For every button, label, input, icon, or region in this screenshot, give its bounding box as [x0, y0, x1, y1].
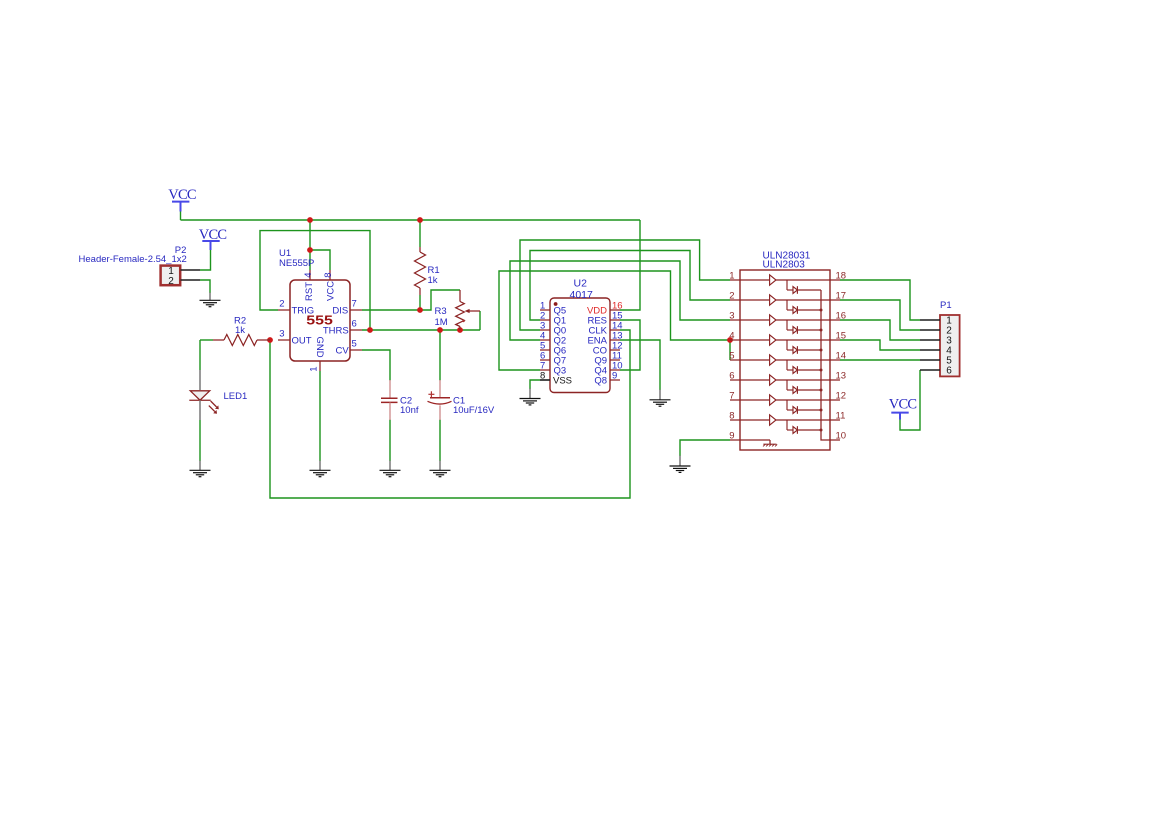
wire LED bottom to ground: [199, 420, 201, 461]
wire C1 top: [439, 330, 441, 381]
junction dot bus ch2: [820, 309, 823, 312]
svg-text:6: 6: [946, 366, 952, 377]
junction dot bus ch7: [820, 409, 823, 412]
pin stub U2.7: [540, 369, 550, 371]
svg-text:10nf: 10nf: [400, 405, 419, 416]
junction dot node THRS/R3: [457, 327, 463, 333]
svg-text:RST: RST: [304, 282, 315, 301]
wire ULN pin 9 to ground: [680, 440, 730, 456]
junction dot bus ch8: [820, 429, 823, 432]
pin stub ULN.15: [830, 339, 840, 341]
LED LED1: [189, 370, 219, 420]
gray lead C1 ground: [439, 461, 441, 471]
junction dot node VCC-rail/R1: [417, 217, 423, 223]
pin stub U1.1: [319, 361, 321, 371]
wire RST feed x=310 from rail to U1 pin 4: [309, 220, 311, 270]
wire LED top: [199, 340, 201, 370]
pin lead P1.2: [920, 329, 940, 331]
pin 1 indicator dot U2: [554, 302, 558, 306]
junction dot node THRS/TRIG-link: [367, 327, 373, 333]
wire R3 wiper return: [479, 311, 481, 330]
pin stub ULN.13: [830, 379, 840, 381]
pin stub ULN.16: [830, 319, 840, 321]
pin lead P1.5: [920, 359, 940, 361]
junction dot node VCC-rail/RST: [307, 217, 313, 223]
svg-text:1k: 1k: [235, 325, 245, 336]
ground (below C2): [380, 470, 401, 476]
ground (ULN pin 9): [670, 466, 691, 472]
wire CV to C2: [362, 350, 390, 381]
wire Q2 hook (U2.4 to ULN.3): [510, 261, 730, 340]
pin stub ULN.14: [830, 359, 840, 361]
svg-text:ULN2803: ULN2803: [763, 260, 806, 271]
wire C1 bottom to ground: [439, 420, 441, 462]
pin lead P2.2: [181, 279, 201, 281]
pin stub U2.9: [610, 379, 620, 381]
svg-text:1: 1: [309, 367, 320, 372]
IC U3 ULN2803 body: [740, 270, 830, 450]
pin stub U2.5: [540, 349, 550, 351]
svg-text:3: 3: [729, 311, 734, 322]
wire U1 GND pin to ground: [319, 371, 321, 461]
pin stub U2.15: [610, 319, 620, 321]
svg-text:7: 7: [729, 391, 734, 402]
pin lead P1.4: [920, 349, 940, 351]
buffer channel 8: [740, 415, 830, 434]
wire TRIG-THRS link: [260, 231, 370, 330]
wire R1 top feed: [419, 220, 421, 247]
wire VDD drop x=640 to U2 pin 16: [620, 220, 640, 310]
buffer channel 2: [740, 295, 830, 314]
wire Q0 hook (U2.3 to ULN.1): [520, 240, 730, 330]
gray lead ULN9 ground: [679, 456, 681, 467]
svg-text:U2: U2: [574, 278, 588, 290]
pin stub U1.3: [278, 339, 290, 341]
wire R1 bottom: [419, 295, 421, 310]
junction dot bus ch6: [820, 389, 823, 392]
wire ULN.17 to P1.2: [840, 300, 920, 330]
pin lead P2.1: [181, 269, 201, 271]
junction dot node OUT: [267, 337, 273, 343]
wire ULN.4 to ULN.5: [729, 340, 731, 360]
svg-text:8: 8: [323, 273, 334, 278]
svg-text:NE555P: NE555P: [279, 258, 314, 269]
svg-text:R3: R3: [435, 306, 447, 317]
svg-text:12: 12: [836, 391, 847, 402]
junction dot node DIS/R1: [417, 307, 423, 313]
pin stub U1.4: [309, 270, 311, 280]
pin stub U2.3: [540, 329, 550, 331]
wire C2 bottom to ground: [389, 420, 391, 462]
internal common lead pin 9: [740, 440, 777, 446]
pin stub U1.7: [350, 309, 362, 311]
pin stub ULN.2: [730, 299, 740, 301]
svg-text:4: 4: [303, 273, 314, 278]
svg-text:VCC: VCC: [326, 281, 337, 301]
pin stub U1.6: [350, 329, 362, 331]
ground (U2 VSS): [520, 399, 541, 405]
pin stub U2.1: [540, 309, 550, 311]
svg-text:TRIG: TRIG: [292, 305, 315, 316]
gray lead ENA ground: [659, 390, 661, 400]
svg-text:P1: P1: [940, 300, 952, 311]
svg-text:9: 9: [612, 370, 617, 381]
svg-text:6: 6: [729, 371, 734, 382]
power flag VCC (at P1): [889, 397, 917, 420]
wire VCC to P1.6: [900, 370, 920, 430]
pin stub ULN.5: [730, 359, 740, 361]
wire VCC to P2 pin 1: [200, 250, 211, 270]
pin stub ULN.6: [730, 379, 740, 381]
pin stub U2.4: [540, 339, 550, 341]
buffer channel 3: [740, 315, 830, 334]
pin stub U2.14: [610, 329, 620, 331]
pin stub U2.11: [610, 359, 620, 361]
junction dot bus ch5: [820, 369, 823, 372]
ground (below C1): [430, 470, 451, 476]
svg-text:4017: 4017: [570, 289, 594, 301]
junction dot node ULN pin4: [727, 337, 733, 343]
svg-text:8: 8: [540, 370, 545, 381]
svg-text:1k: 1k: [428, 275, 438, 286]
pin stub ULN.12: [830, 399, 840, 401]
svg-text:5: 5: [352, 339, 357, 350]
pin stub ULN.18: [830, 279, 840, 281]
resistor R2: [213, 335, 270, 346]
pin stub U1.2: [278, 309, 290, 311]
svg-text:13: 13: [836, 371, 847, 382]
pin stub ULN.9: [730, 439, 740, 441]
svg-text:9: 9: [729, 431, 734, 442]
buffer channel 1: [740, 275, 830, 294]
wire ULN.15 to P1.4: [840, 340, 920, 350]
wire branch to U1 pin 8: [310, 250, 330, 270]
connector P1 body: [940, 315, 960, 376]
svg-text:VSS: VSS: [553, 375, 572, 386]
pin stub U2.12: [610, 349, 620, 351]
pin stub ULN.17: [830, 299, 840, 301]
svg-text:VCC: VCC: [889, 397, 917, 413]
junction dot bus ch4: [820, 349, 823, 352]
svg-text:5: 5: [729, 351, 734, 362]
pin stub U2.10: [610, 369, 620, 371]
svg-text:1: 1: [729, 271, 734, 282]
gray lead U1 ground: [319, 461, 321, 471]
pin stub ULN.3: [730, 319, 740, 321]
wire P2 pin 2 to ground: [200, 280, 210, 293]
svg-text:10uF/16V: 10uF/16V: [453, 405, 495, 416]
buffer channel 5: [740, 355, 830, 374]
pin stub U1.8: [329, 270, 331, 280]
svg-text:CV: CV: [335, 345, 349, 356]
power flag VCC (top-left): [168, 187, 196, 212]
svg-text:Q8: Q8: [594, 375, 607, 386]
ground (ENA): [650, 400, 671, 406]
wire ENA to ground: [620, 340, 660, 390]
svg-text:OUT: OUT: [292, 335, 312, 346]
pin lead P1.3: [920, 339, 940, 341]
op-amp-timer U1 NE555P body: [290, 280, 350, 361]
svg-text:DIS: DIS: [332, 305, 348, 316]
pin stub U2.13: [610, 339, 620, 341]
svg-text:8: 8: [729, 411, 734, 422]
ground (below U1): [310, 470, 331, 476]
pin stub ULN.11: [830, 419, 840, 421]
wire THRS node y=330: [362, 329, 480, 331]
wire RES to Q4 (U2.15 to U2.10): [620, 320, 640, 370]
wire ULN.14 to P1.5: [840, 359, 920, 361]
buffer channel 4: [740, 335, 830, 354]
svg-text:GND: GND: [314, 337, 325, 358]
wire VCC rail horizontal y=220: [181, 219, 641, 221]
wire VCC flag to rail: [180, 212, 182, 221]
capacitor C2: [381, 380, 398, 420]
gray lead P2 ground: [209, 293, 211, 301]
svg-text:2: 2: [279, 299, 284, 310]
gray lead LED ground: [199, 461, 201, 471]
wire DIS node to R1 bottom and R3 top: [362, 290, 460, 310]
svg-text:6: 6: [352, 319, 357, 330]
wire Q1 hook (U2.2 to ULN.2): [530, 251, 730, 321]
pin stub ULN.10: [830, 439, 840, 441]
power flag VCC (at P2): [199, 227, 227, 250]
ground (below LED1): [190, 470, 211, 476]
junction dot bus ch3: [820, 329, 823, 332]
buffer channel 6: [740, 375, 830, 394]
connector P2 body: [161, 266, 181, 286]
pin stub U1.5: [350, 349, 362, 351]
pin stub ULN.7: [730, 399, 740, 401]
capacitor C1 (electrolytic): [428, 380, 452, 420]
svg-text:3: 3: [279, 329, 284, 340]
wire ULN.16 to P1.3: [840, 320, 920, 340]
pin lead P1.6: [920, 369, 940, 371]
svg-text:Header-Female-2.54_1x2: Header-Female-2.54_1x2: [79, 254, 187, 265]
pin stub ULN.4: [730, 339, 740, 341]
IC U2 4017 body: [550, 298, 610, 393]
pin stub U2.8 (VSS, black): [540, 379, 550, 381]
svg-text:11: 11: [836, 411, 846, 422]
junction dot node THRS/C1: [437, 327, 443, 333]
potentiometer R3: [456, 290, 480, 330]
pin stub U2.2: [540, 319, 550, 321]
ground (below P2): [200, 300, 221, 306]
diode common bus: [821, 290, 830, 440]
gray lead C2 ground: [389, 461, 391, 471]
svg-text:2: 2: [729, 291, 734, 302]
svg-text:7: 7: [352, 299, 357, 310]
wire Q3 hook (U2.7 to ULN.4/5): [499, 271, 730, 370]
gray lead VSS ground: [529, 389, 531, 399]
buffer channel 7: [740, 395, 830, 414]
junction dot node RST/VCC pins: [307, 247, 313, 253]
svg-text:THRS: THRS: [323, 325, 349, 336]
pin stub ULN.8: [730, 419, 740, 421]
resistor R1: [415, 247, 426, 295]
svg-text:4: 4: [729, 331, 734, 342]
svg-text:2: 2: [168, 276, 174, 287]
wire ULN.18 to P1.1: [840, 280, 920, 320]
wire OUT node: R2 to LED: [200, 339, 213, 341]
svg-text:1M: 1M: [435, 317, 448, 328]
svg-text:LED1: LED1: [224, 391, 248, 402]
wire VSS to ground: [530, 380, 540, 389]
pin lead P1.1: [920, 319, 940, 321]
pin stub U2.6: [540, 359, 550, 361]
pin stub U2.16: [610, 309, 620, 311]
svg-text:10: 10: [836, 431, 847, 442]
wire OUT down and across to U2 CLK: [270, 330, 630, 498]
pin stub ULN.1: [730, 279, 740, 281]
